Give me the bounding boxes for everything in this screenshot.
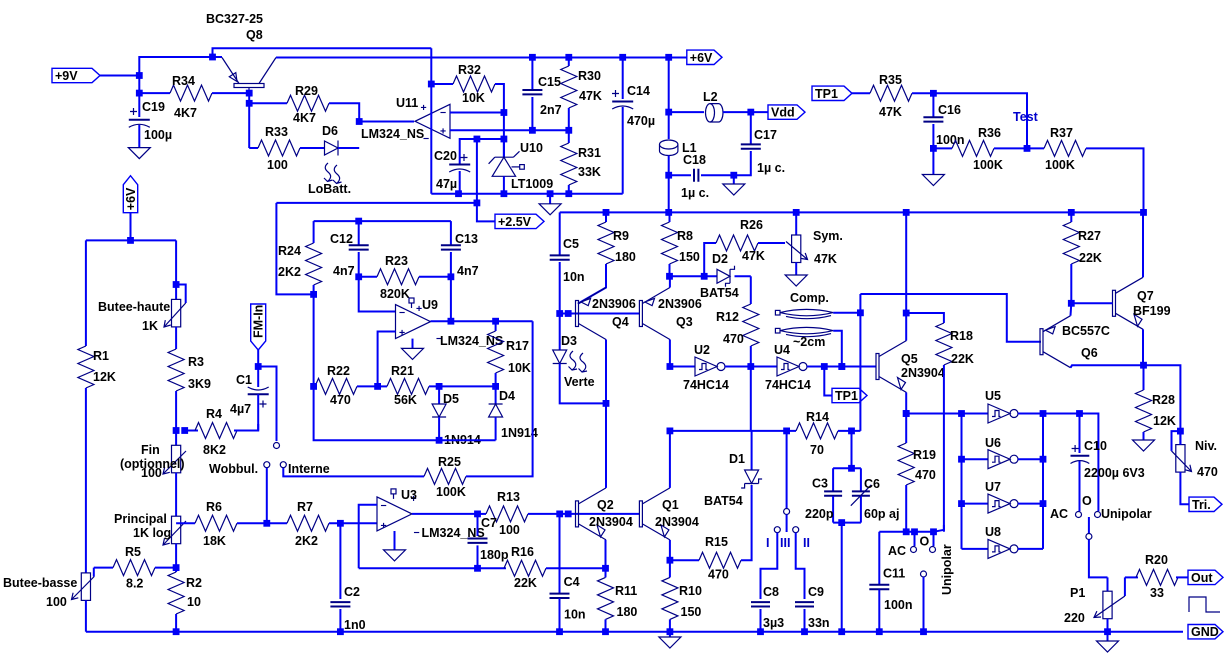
svg-text:R23: R23: [385, 254, 408, 268]
resistor R10: [669, 560, 671, 577]
svg-text:2K2: 2K2: [295, 534, 318, 548]
capacitor C3: [833, 468, 861, 491]
svg-text:U4: U4: [774, 343, 790, 357]
svg-text:U10: U10: [520, 141, 543, 155]
wire U11 output: [359, 121, 414, 123]
svg-text:C12: C12: [330, 232, 353, 246]
flag GND: [1183, 623, 1226, 641]
svg-text:100K: 100K: [973, 158, 1003, 172]
capacitor C14: [622, 57, 624, 99]
wire C20 top: [460, 139, 504, 164]
capacitor C1: [257, 367, 259, 388]
ground below Sym: [795, 263, 797, 276]
svg-text:R8: R8: [677, 229, 693, 243]
wire range I to C8: [761, 533, 778, 599]
resistor R31: [568, 130, 570, 143]
svg-text:TP1: TP1: [815, 87, 838, 101]
svg-text:2N3904: 2N3904: [901, 366, 945, 380]
svg-text:1µ c.: 1µ c.: [681, 186, 709, 200]
wiper arrow Fin: [163, 451, 186, 474]
comp probe upper: [775, 310, 780, 315]
svg-text:+2.5V: +2.5V: [498, 215, 532, 229]
svg-text:BAT54: BAT54: [704, 494, 743, 508]
resistor R11: [598, 577, 614, 619]
svg-text:U3: U3: [401, 488, 417, 502]
svg-text:BC557C: BC557C: [1062, 324, 1110, 338]
svg-text:C15: C15: [538, 75, 561, 89]
svg-text:R25: R25: [438, 455, 461, 469]
resistor R21: [378, 385, 387, 387]
svg-text:Q2: Q2: [597, 498, 614, 512]
svg-text:R19: R19: [913, 448, 936, 462]
shunt reference U10 LT1009: [503, 139, 505, 157]
capacitor C19: [138, 76, 140, 118]
svg-text:Interne: Interne: [288, 462, 330, 476]
inverter input rail: [961, 414, 963, 549]
wire D6 to U11 output node: [338, 147, 359, 149]
svg-text:R29: R29: [295, 84, 318, 98]
svg-text:2N3906: 2N3906: [592, 297, 636, 311]
svg-text:C18: C18: [683, 153, 706, 167]
svg-text:D6: D6: [322, 124, 338, 138]
wire U9 minus input: [359, 277, 396, 312]
svg-text:U7: U7: [985, 480, 1001, 494]
resistor R12: [750, 276, 752, 304]
capacitor C17: [750, 112, 752, 144]
inverter U4 74HC14: [777, 357, 799, 376]
svg-text:Unipolar: Unipolar: [1101, 507, 1152, 521]
svg-text:R15: R15: [705, 535, 728, 549]
svg-text:Butee-basse: Butee-basse: [3, 576, 77, 590]
svg-text:10n: 10n: [563, 270, 585, 284]
svg-text:L2: L2: [703, 90, 718, 104]
capacitor C9: [795, 602, 814, 606]
transistor Q7: [1113, 290, 1116, 316]
transistor Q3: [639, 301, 642, 327]
wire Q7 collector: [1142, 212, 1144, 277]
svg-text:U8: U8: [985, 525, 1001, 539]
wire U11 minus input: [450, 112, 504, 114]
svg-text:Niv.: Niv.: [1195, 439, 1217, 453]
resistor R27: [1070, 212, 1072, 222]
svg-text:−: −: [440, 107, 446, 119]
ground below C19: [128, 148, 150, 159]
wire Q6 collector row: [1071, 365, 1181, 444]
svg-text:10K: 10K: [508, 361, 531, 375]
svg-text:820K: 820K: [380, 287, 410, 301]
power flag +9V: [52, 68, 100, 82]
svg-text:4K7: 4K7: [174, 106, 197, 120]
op-amp U3: [377, 497, 412, 531]
svg-text:LT1009: LT1009: [511, 177, 553, 191]
transistor Q8: [234, 84, 264, 88]
svg-text:Wobbul.: Wobbul.: [209, 462, 258, 476]
svg-text:R31: R31: [578, 146, 601, 160]
wire Q5 collector: [905, 212, 907, 340]
resistor R26: [716, 235, 758, 251]
svg-text:2N3906: 2N3906: [658, 297, 702, 311]
resistor R18: [936, 323, 952, 365]
svg-text:+: +: [421, 102, 427, 114]
svg-text:R10: R10: [679, 584, 702, 598]
svg-text:Unipolar: Unipolar: [940, 544, 954, 595]
svg-text:U5: U5: [985, 389, 1001, 403]
svg-text:C20: C20: [434, 149, 457, 163]
ground bus center: [560, 631, 1188, 633]
wire U5 out to C10 node: [1043, 414, 1098, 512]
svg-text:R34: R34: [172, 74, 195, 88]
svg-text:R7: R7: [297, 500, 313, 514]
svg-text:1K log: 1K log: [133, 526, 171, 540]
svg-text:2N3904: 2N3904: [589, 515, 633, 529]
svg-text:Fin: Fin: [141, 443, 160, 457]
svg-text:R24: R24: [278, 244, 301, 258]
svg-text:~2cm: ~2cm: [793, 335, 825, 349]
svg-text:AC: AC: [888, 544, 906, 558]
svg-text:C6: C6: [864, 477, 880, 491]
svg-text:12K: 12K: [93, 370, 116, 384]
svg-text:R5: R5: [125, 545, 141, 559]
inductor L1: [660, 140, 678, 149]
wire Fin to Principal: [175, 473, 177, 516]
resistor R20: [1125, 576, 1138, 578]
svg-text:−: −: [399, 307, 405, 319]
svg-text:R33: R33: [265, 125, 288, 139]
inverter U2 74HC14: [670, 366, 695, 368]
svg-text:C13: C13: [455, 232, 478, 246]
op-amp U11: [415, 104, 450, 138]
svg-text:1µ c.: 1µ c.: [757, 161, 785, 175]
switch contact Unipolar right: [933, 532, 935, 546]
resistor R16: [504, 560, 546, 576]
svg-text:LoBatt.: LoBatt.: [308, 182, 351, 196]
switch contact Unipolar right sw: [1095, 512, 1101, 518]
svg-text:74HC14: 74HC14: [683, 378, 729, 392]
flag TP1 top: [812, 86, 852, 100]
svg-text:AC: AC: [1050, 507, 1068, 521]
ground below C16: [932, 148, 934, 174]
svg-text:2N3904: 2N3904: [655, 515, 699, 529]
wire Q2 Q1 base row: [560, 513, 640, 515]
wire Q3 emitter: [669, 276, 671, 287]
svg-text:U9: U9: [422, 298, 438, 312]
switch pole mode2: [1088, 517, 1090, 533]
svg-text:+: +: [381, 520, 387, 532]
resistor R35: [852, 92, 870, 94]
switch contact Wobbul-Interne top: [274, 443, 280, 449]
capacitor C8: [751, 602, 770, 606]
wire +6V filter column: [668, 57, 670, 139]
wire comp to Q6 base net: [860, 294, 1041, 431]
wire timing cap stub: [851, 431, 853, 468]
svg-text:Q4: Q4: [612, 315, 629, 329]
svg-text:I: I: [766, 536, 769, 550]
svg-text:+: +: [440, 126, 446, 138]
svg-text:R9: R9: [613, 229, 629, 243]
wire Q2 collector: [605, 403, 607, 488]
svg-text:4n7: 4n7: [333, 264, 355, 278]
wire Q5 base taps: [821, 363, 828, 370]
svg-text:10: 10: [187, 595, 201, 609]
svg-text:1n0: 1n0: [344, 618, 366, 632]
wire R16 row: [359, 567, 506, 569]
svg-text:4n7: 4n7: [457, 264, 479, 278]
svg-text:3µ3: 3µ3: [763, 616, 784, 630]
capacitor C7: [477, 514, 479, 536]
switch contact AC right sw: [1076, 512, 1082, 518]
transistor Q6: [1040, 329, 1043, 355]
wire D2 row: [670, 275, 718, 277]
svg-text:Q1: Q1: [662, 498, 679, 512]
potentiometer Niv: [1176, 445, 1185, 473]
svg-text:U2: U2: [694, 343, 710, 357]
svg-text:+6V: +6V: [690, 51, 713, 65]
svg-text:47K: 47K: [579, 89, 602, 103]
svg-text:18K: 18K: [203, 534, 226, 548]
wire R18 top: [906, 313, 944, 323]
wire Niv to Tri: [1180, 472, 1189, 504]
wire U9 output: [431, 320, 533, 322]
comp probe lower: [775, 328, 780, 333]
svg-text:R17: R17: [506, 339, 529, 353]
transistor Q2: [576, 501, 579, 527]
wire FM select node: [258, 367, 276, 442]
oscillator node row: [670, 430, 796, 432]
svg-text:100: 100: [141, 466, 162, 480]
wire Wobbul down: [266, 468, 268, 523]
svg-text:BC327-25: BC327-25: [206, 12, 263, 26]
wire Q7 base: [1071, 302, 1112, 304]
wire top row left column: [86, 239, 176, 241]
svg-text:BAT54: BAT54: [700, 286, 739, 300]
resistor R24: [313, 221, 315, 243]
resistor R15: [670, 559, 699, 561]
switch contact II: [793, 527, 799, 533]
switch pole mode1: [921, 571, 927, 577]
svg-text:100: 100: [499, 523, 520, 537]
resistor R25: [414, 475, 424, 477]
svg-text:33K: 33K: [578, 165, 601, 179]
wiper arrow Sym: [786, 242, 808, 260]
wire Q8 base node: [248, 93, 250, 148]
diode D5 1N914: [438, 386, 440, 404]
svg-text:470: 470: [708, 568, 729, 582]
svg-text:Verte: Verte: [564, 375, 595, 389]
ground bus left: [86, 631, 560, 633]
capacitor C12: [358, 221, 360, 245]
diode D1 BAT54: [751, 431, 753, 470]
svg-text:22K: 22K: [514, 576, 537, 590]
svg-text:C9: C9: [808, 585, 824, 599]
power flag +2.5V: [495, 214, 544, 228]
svg-text:R12: R12: [716, 310, 739, 324]
svg-text:Principal: Principal: [114, 512, 167, 526]
svg-text:C19: C19: [142, 100, 165, 114]
svg-text:O: O: [1082, 494, 1092, 508]
svg-text:R30: R30: [578, 69, 601, 83]
diode D2 BAT54: [717, 269, 730, 283]
svg-text:R18: R18: [950, 329, 973, 343]
inverter U5 74HC14: [988, 404, 1010, 423]
inverter U6 74HC14: [962, 458, 989, 460]
svg-text:100n: 100n: [936, 133, 965, 147]
svg-text:Butee-haute: Butee-haute: [98, 300, 170, 314]
svg-text:180p: 180p: [480, 548, 509, 562]
svg-text:D1: D1: [729, 452, 745, 466]
wire range switch pole: [786, 431, 788, 508]
flag Tri.: [1189, 497, 1222, 511]
svg-text:100n: 100n: [884, 598, 913, 612]
svg-text:R4: R4: [206, 407, 222, 421]
svg-text:R2: R2: [186, 576, 202, 590]
svg-text:33n: 33n: [808, 616, 830, 630]
resistor R6: [176, 522, 195, 524]
svg-text:100µ: 100µ: [144, 128, 172, 142]
svg-text:47K: 47K: [879, 105, 902, 119]
svg-text:II: II: [803, 536, 810, 550]
svg-text:100K: 100K: [1045, 158, 1075, 172]
resistor R33: [249, 147, 258, 149]
capacitor C13: [450, 221, 452, 245]
wire left vertical R1 branch: [85, 240, 87, 346]
wire +2.5V net: [276, 139, 495, 221]
svg-text:Vdd: Vdd: [771, 106, 795, 120]
svg-text:−: −: [414, 527, 420, 539]
resistor R1: [78, 346, 94, 388]
potentiometer Fin: [175, 431, 177, 446]
svg-text:180: 180: [615, 250, 636, 264]
svg-text:BF199: BF199: [1133, 304, 1171, 318]
svg-text:Sym.: Sym.: [813, 229, 843, 243]
wire Q2 emitter: [605, 540, 607, 578]
wire Q4 Q3 base row: [560, 313, 640, 315]
svg-text:2200µ 6V3: 2200µ 6V3: [1084, 466, 1145, 480]
resistor R19: [905, 442, 907, 444]
svg-text:C1: C1: [236, 373, 252, 387]
svg-text:FM-In: FM-In: [252, 305, 266, 338]
resistor R32: [431, 83, 453, 85]
ground below U9: [412, 339, 414, 349]
svg-text:220p: 220p: [805, 507, 834, 521]
svg-text:22K: 22K: [1079, 251, 1102, 265]
svg-text:R14: R14: [806, 410, 829, 424]
wire Q4 collector: [605, 340, 607, 404]
svg-text:P1: P1: [1070, 586, 1085, 600]
svg-text:R3: R3: [188, 355, 204, 369]
svg-text:47µ: 47µ: [436, 177, 457, 191]
svg-text:2K2: 2K2: [278, 265, 301, 279]
svg-text:4µ7: 4µ7: [230, 402, 251, 416]
wire D1 column upper: [750, 367, 752, 431]
svg-text:+: +: [399, 327, 405, 339]
switch pole contact range: [784, 509, 790, 515]
capacitor C2: [339, 523, 341, 599]
potentiometer Butee-haute: [172, 299, 181, 327]
svg-text:C10: C10: [1084, 439, 1107, 453]
wire +9V rail up-right: [139, 48, 431, 75]
resistor R2: [175, 568, 177, 572]
wire range II to C9: [796, 533, 805, 599]
svg-text:R37: R37: [1050, 126, 1073, 140]
wire U2 out to U4: [751, 366, 777, 368]
svg-text:TP1: TP1: [835, 389, 858, 403]
wire mode switch row: [879, 532, 933, 585]
svg-text:C2: C2: [344, 585, 360, 599]
wire +9V to junction: [100, 75, 139, 77]
wire +6V flag stub: [130, 213, 132, 241]
transistor Q4: [576, 301, 579, 327]
svg-text:C5: C5: [563, 237, 579, 251]
main 2.5V rail: [560, 211, 1144, 213]
wire Interne to R25 row: [283, 468, 414, 476]
inverter U5 row: [906, 413, 988, 415]
svg-text:III: III: [780, 536, 790, 550]
potentiometer P1: [1107, 577, 1109, 591]
svg-text:74HC14: 74HC14: [765, 378, 811, 392]
svg-text:1K: 1K: [142, 319, 158, 333]
svg-text:D3: D3: [561, 334, 577, 348]
capacitor C20: [449, 164, 470, 166]
resistor R4: [185, 430, 198, 432]
svg-text:3K9: 3K9: [188, 377, 211, 391]
wiper arrow Butee-haute: [164, 303, 186, 327]
svg-text:Tri.: Tri.: [1192, 498, 1211, 512]
svg-text:R11: R11: [615, 584, 637, 598]
svg-text:470: 470: [915, 468, 936, 482]
wire R26 branch: [704, 243, 716, 276]
inverter output rail: [1042, 414, 1044, 549]
svg-text:C16: C16: [938, 103, 961, 117]
resistor R8: [669, 212, 671, 222]
wire Q1 emitter: [669, 540, 671, 560]
ground near C18: [733, 175, 735, 184]
svg-text:R32: R32: [458, 63, 481, 77]
svg-text:150: 150: [681, 605, 702, 619]
svg-text:Test: Test: [1013, 110, 1039, 124]
wire Test net: [933, 93, 1027, 148]
svg-text:R26: R26: [740, 218, 763, 232]
svg-text:10K: 10K: [462, 91, 485, 105]
resistor R14: [796, 423, 838, 439]
capacitor C16: [932, 93, 934, 117]
svg-text:470: 470: [723, 332, 744, 346]
potentiometer Butee-basse: [81, 573, 90, 601]
svg-text:R1: R1: [93, 349, 109, 363]
svg-text:R20: R20: [1145, 553, 1168, 567]
svg-text:−: −: [381, 500, 387, 512]
wire Principal to R2 node: [175, 544, 177, 568]
resistor R28: [1143, 365, 1145, 390]
svg-text:100: 100: [267, 158, 288, 172]
LED D6: [317, 147, 325, 149]
svg-text:10n: 10n: [564, 608, 586, 622]
svg-text:Q7: Q7: [1137, 289, 1154, 303]
svg-text:C3: C3: [812, 477, 828, 491]
transistor Q5: [876, 354, 879, 380]
wire diode bottom row: [314, 294, 496, 440]
svg-text:220: 220: [1064, 611, 1085, 625]
svg-text:47K: 47K: [742, 249, 765, 263]
svg-text:180: 180: [617, 605, 638, 619]
svg-text:470µ: 470µ: [627, 114, 655, 128]
wire R24 bypass: [276, 203, 313, 295]
svg-text:60p aj: 60p aj: [864, 507, 899, 521]
resistor R23: [359, 276, 377, 278]
capacitor C5: [559, 212, 561, 255]
wire Q8 emitter lead: [213, 56, 223, 58]
svg-text:D5: D5: [443, 392, 459, 406]
wire Butee-basse to bus: [85, 600, 87, 631]
